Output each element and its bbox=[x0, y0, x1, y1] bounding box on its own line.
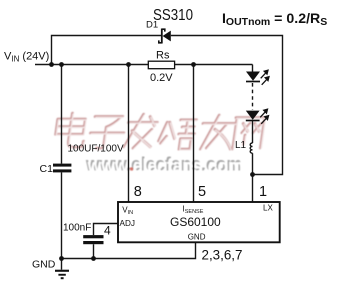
svg-text:VIN (24V): VIN (24V) bbox=[4, 51, 49, 64]
svg-text:SS310: SS310 bbox=[153, 7, 193, 24]
svg-text:D1: D1 bbox=[146, 20, 158, 31]
svg-text:C1: C1 bbox=[40, 163, 54, 175]
svg-text:2,3,6,7: 2,3,6,7 bbox=[202, 248, 243, 263]
svg-text:GND: GND bbox=[188, 233, 206, 242]
svg-text:100nF: 100nF bbox=[63, 223, 91, 234]
svg-text:www.elecfans.com: www.elecfans.com bbox=[87, 157, 244, 178]
svg-text:L1: L1 bbox=[235, 140, 247, 151]
svg-text:100UF/100V: 100UF/100V bbox=[68, 144, 124, 155]
svg-text:0.2V: 0.2V bbox=[150, 72, 173, 84]
svg-text:Rs: Rs bbox=[156, 50, 170, 62]
svg-text:LX: LX bbox=[263, 204, 273, 213]
svg-text:GND: GND bbox=[32, 259, 56, 271]
svg-text:4: 4 bbox=[104, 224, 111, 238]
svg-text:ADJ: ADJ bbox=[120, 219, 136, 228]
svg-text:1: 1 bbox=[259, 184, 267, 200]
svg-text:5: 5 bbox=[198, 184, 206, 200]
svg-text:GS60100: GS60100 bbox=[170, 215, 221, 229]
svg-text:8: 8 bbox=[134, 184, 142, 200]
